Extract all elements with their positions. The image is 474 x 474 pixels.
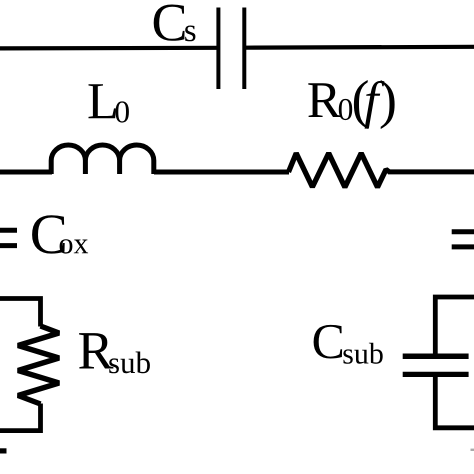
label R0(f) <box>308 80 394 129</box>
wire bottom-left loop bottom <box>0 404 41 431</box>
capacitor Cs <box>218 8 244 90</box>
wire bottom-right loop top <box>435 297 474 354</box>
label Cox <box>32 215 88 253</box>
wire middle-left (to L0) <box>0 170 52 175</box>
wire bottom-left loop top <box>0 299 41 327</box>
capacitor Cox right (cropped plates) <box>452 232 474 247</box>
wire bottom-right loop bottom <box>435 377 474 428</box>
label L0 <box>89 84 129 122</box>
label Csub <box>314 325 383 364</box>
wire middle-mid (L0 to R0) <box>154 170 289 175</box>
wire middle-right (from R0) <box>388 169 474 174</box>
capacitor Cox left (cropped plates) <box>0 230 17 245</box>
resistor Rsub <box>18 326 59 404</box>
inductor L0 <box>51 145 154 174</box>
port stub bottom-left <box>0 448 7 453</box>
label Cs <box>154 5 196 42</box>
capacitor Csub <box>403 356 469 374</box>
resistor R0(f) <box>289 153 390 187</box>
wire top-left (to Cs) <box>0 46 219 51</box>
wire top-right (from Cs) <box>244 45 474 50</box>
label Rsub <box>79 333 150 373</box>
faint stub bottom-right <box>471 449 474 451</box>
